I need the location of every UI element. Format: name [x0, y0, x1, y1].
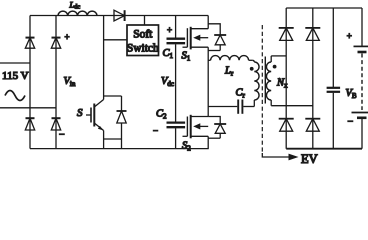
svg-text:Switch: Switch — [127, 43, 159, 55]
svg-text:S: S — [77, 107, 83, 119]
soft switch box — [127, 25, 159, 56]
svg-text:EV: EV — [301, 152, 318, 165]
svg-text:Vdc: Vdc — [161, 76, 174, 88]
diode D boost — [114, 10, 125, 21]
wire IGBT emitter link — [104, 138, 122, 140]
diode across S2 — [208, 117, 226, 139]
transformer secondary winding — [266, 56, 271, 106]
wire AC stub lower — [0, 107, 56, 109]
transistor S1 MOSFET — [183, 16, 209, 50]
diode D4 — [51, 118, 60, 130]
capacitor output — [327, 8, 341, 149]
node output leg 2 — [312, 8, 314, 149]
transformer primary winding — [252, 60, 259, 106]
diode D6 — [305, 28, 320, 41]
svg-text:Ldc: Ldc — [69, 0, 81, 11]
inductor Lr — [208, 56, 252, 61]
node bridge leg 2 — [55, 16, 57, 149]
svg-text:C2: C2 — [156, 109, 167, 121]
wire bottom rail right section — [286, 148, 362, 150]
svg-text:Lr: Lr — [224, 66, 234, 78]
transformer core line — [264, 57, 266, 104]
wire secondary top link — [271, 55, 286, 57]
svg-text:115 V: 115 V — [2, 70, 29, 82]
svg-text:+: + — [347, 31, 352, 41]
node boost rail — [103, 16, 105, 100]
boundary dashed line — [261, 25, 263, 153]
node primary dot — [250, 67, 254, 71]
svg-text:+: + — [65, 32, 70, 42]
diode across S — [117, 96, 127, 149]
capacitor C1 — [167, 16, 186, 122]
svg-text:S1: S1 — [182, 51, 191, 63]
wire secondary bottom link — [271, 105, 313, 107]
wire top bus right section — [286, 7, 362, 9]
diode D5 — [279, 28, 294, 41]
wire AC stub upper — [0, 62, 30, 64]
svg-text:Soft: Soft — [133, 29, 153, 41]
source sine symbol — [5, 91, 25, 101]
diode across S1 — [208, 24, 226, 51]
svg-text:−: − — [59, 130, 65, 141]
node bridge leg 1 — [29, 16, 31, 149]
transistor S IGBT — [86, 100, 104, 149]
diode D8 — [305, 119, 320, 132]
svg-text:C1: C1 — [163, 48, 174, 60]
wire soft switch top connection — [144, 16, 146, 26]
capacitor Cr — [208, 100, 254, 114]
svg-text:−: − — [153, 126, 158, 136]
node secondary dot — [273, 65, 277, 69]
inductor Ldc — [58, 11, 97, 15]
diode D7 — [279, 119, 294, 132]
svg-text:Cr: Cr — [236, 88, 246, 100]
arrow EV — [262, 153, 298, 160]
wire IGBT diode top — [104, 95, 122, 97]
wire top bus left section — [30, 15, 208, 17]
svg-text:+: + — [167, 25, 172, 35]
diode D3 — [25, 118, 34, 130]
diode D1 — [25, 38, 34, 49]
node midpoint rail — [207, 47, 209, 116]
battery VB — [352, 8, 368, 149]
svg-text:S2: S2 — [182, 141, 191, 153]
transistor S2 MOSFET — [183, 115, 209, 149]
svg-text:VB: VB — [346, 88, 357, 100]
node output leg 1 — [285, 8, 287, 149]
svg-text:−: − — [348, 117, 354, 128]
wire soft switch left connection — [104, 39, 127, 41]
capacitor C2 — [167, 123, 186, 149]
diode D2 — [51, 38, 60, 49]
wire bottom rail left section — [30, 148, 209, 150]
svg-text:Vin: Vin — [64, 76, 76, 88]
